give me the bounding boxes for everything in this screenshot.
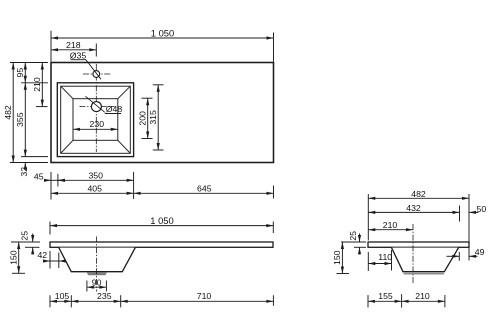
svg-text:350: 350 [88, 171, 103, 181]
svg-text:432: 432 [406, 203, 421, 213]
dim 482 side [367, 194, 369, 241]
svg-text:200: 200 [137, 111, 147, 126]
svg-text:710: 710 [197, 291, 212, 301]
dim 218 faucet from left [95, 44, 97, 57]
dim 45 [44, 179, 51, 181]
dim 1050 top view [50, 31, 52, 62]
bottom chain 155/210 side [367, 295, 369, 307]
dim 42 front [49, 251, 51, 269]
dim 32 (below, outside arrows) [24, 163, 26, 170]
front view: countertop slab [50, 242, 273, 247]
drain hole circle D48 [91, 102, 101, 112]
svg-text:155: 155 [378, 291, 393, 301]
top view: basin bottom rectangle [73, 99, 118, 141]
svg-text:1 050: 1 050 [151, 28, 174, 39]
svg-text:355: 355 [15, 112, 25, 127]
dim 230 basin bottom width [73, 128, 118, 130]
svg-text:218: 218 [66, 40, 81, 50]
dim 315 [153, 84, 164, 86]
svg-text:150: 150 [8, 250, 18, 265]
svg-text:Ø35: Ø35 [70, 50, 87, 60]
svg-text:210: 210 [415, 291, 430, 301]
svg-text:95: 95 [15, 68, 25, 78]
svg-text:25: 25 [348, 231, 358, 241]
svg-text:150: 150 [332, 250, 342, 265]
centerline vertical through faucet and drain [95, 64, 97, 152]
svg-text:210: 210 [383, 220, 398, 230]
side view: centerline [412, 224, 414, 284]
centerline horizontal faucet [83, 73, 111, 75]
side view: countertop slab [368, 242, 469, 247]
dim 25 front (slab thickness) [11, 241, 40, 243]
dim 405 [51, 192, 134, 194]
svg-text:90: 90 [92, 277, 102, 287]
ext lines below top view [50, 172, 52, 200]
svg-text:Ø48: Ø48 [106, 104, 123, 114]
faucet hole circle D35 [93, 71, 100, 78]
svg-text:42: 42 [37, 250, 47, 260]
svg-text:110: 110 [378, 252, 392, 262]
front view: bowl outline [59, 248, 136, 272]
dim 50 side [469, 211, 479, 213]
svg-text:235: 235 [97, 291, 112, 301]
side view: bowl outline [392, 248, 459, 272]
dim 150 front (total height) [12, 272, 25, 274]
dim 432 side [459, 206, 461, 222]
dim 1050 front [49, 222, 51, 235]
dim 355 [24, 83, 26, 157]
svg-text:32: 32 [19, 167, 29, 177]
bottom chain 105/235/710 [49, 295, 51, 307]
svg-text:1 050: 1 050 [150, 215, 173, 226]
svg-text:405: 405 [87, 184, 102, 194]
dim 110 side [367, 252, 369, 271]
dim 210 side (drain center) [368, 229, 413, 231]
dim 645 [134, 192, 274, 194]
leader line D35 [86, 60, 101, 80]
svg-text:482: 482 [3, 105, 13, 120]
leader line D48 [86, 96, 105, 112]
svg-text:45: 45 [34, 172, 44, 182]
svg-text:25: 25 [19, 231, 29, 241]
top view: basin slope corner lines [61, 86, 73, 99]
dim 90 front (drain stub) [86, 281, 88, 292]
dim 49 side [458, 252, 460, 261]
top view: countertop outline 1050x482 [51, 63, 274, 163]
svg-text:482: 482 [411, 189, 426, 199]
top view: basin rim inner edge [61, 86, 131, 153]
dim 150 side [337, 273, 350, 275]
svg-text:315: 315 [148, 110, 158, 125]
dim 200 [142, 97, 153, 99]
svg-text:210: 210 [32, 77, 42, 92]
front view: drain stub (gray) [87, 272, 107, 275]
front view: centerline [96, 237, 98, 292]
svg-text:50: 50 [477, 204, 487, 214]
dim 25 side [341, 241, 366, 243]
ext lines for 95/355 chain [21, 82, 48, 84]
svg-text:230: 230 [90, 119, 105, 129]
dim 482 left side [10, 62, 48, 64]
svg-text:645: 645 [197, 184, 212, 194]
centerline horizontal drain [80, 106, 115, 108]
svg-text:105: 105 [55, 291, 70, 301]
svg-text:49: 49 [475, 247, 485, 257]
dim 95 [24, 63, 26, 83]
side view: drain flange gray line [404, 273, 445, 275]
dim 350 [58, 179, 134, 181]
top view: basin outer rim [57, 83, 133, 157]
dim 210 (to drain center) [36, 106, 48, 108]
